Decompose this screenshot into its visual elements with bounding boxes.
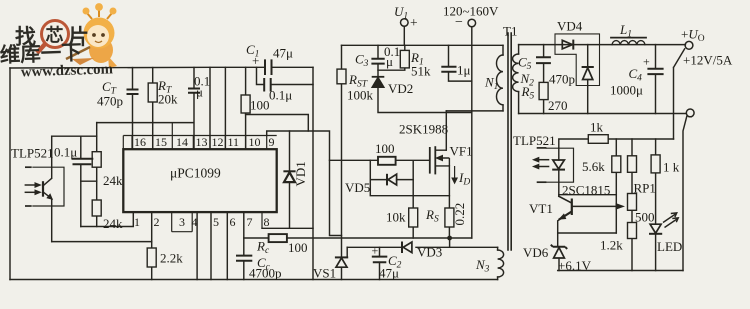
wire U1 terminal stub — [403, 26, 405, 45]
svg-text:VD4: VD4 — [557, 19, 583, 34]
svg-text:6: 6 — [230, 215, 236, 229]
wire pin4-5 divider ground — [196, 212, 198, 279]
capacitor C2 47u plates — [372, 257, 388, 263]
wire 24k2 bottom — [96, 216, 98, 227]
box VD4 outline — [555, 34, 600, 86]
wire C4 column — [655, 45, 657, 114]
svg-text:14: 14 — [176, 135, 188, 149]
wire VS1 gate stub — [346, 247, 348, 257]
ic U1 uPC1099 body — [123, 149, 276, 212]
svg-text:47μ: 47μ — [273, 46, 293, 61]
svg-text:4: 4 — [192, 215, 198, 229]
wire divider 12-11 / C1 left feed — [224, 67, 226, 149]
resistor 2.2k — [147, 248, 156, 267]
svg-text:μPC1099: μPC1099 — [170, 166, 221, 181]
wire right vertical bus x313 — [312, 67, 314, 279]
wire 0.1u-b left plate stub — [257, 67, 265, 84]
svg-text:VS1: VS1 — [313, 266, 336, 281]
wire 24k mid tap — [81, 180, 97, 182]
wire VD4 freewheel stubs — [587, 45, 589, 114]
capacitor 0.1u-c plates — [72, 159, 94, 165]
wire R1 stubs — [378, 45, 405, 70]
resistor 100 gate horizontal — [378, 157, 396, 165]
svg-text:μ: μ — [196, 85, 203, 100]
arrow LED emission 1 — [663, 213, 677, 223]
wire N2 ends — [518, 45, 520, 114]
winding N1 coil — [497, 55, 504, 105]
wire pin5-6 divider ground — [210, 212, 212, 279]
svg-text:VD2: VD2 — [388, 81, 413, 96]
watermark mascot antennae — [87, 9, 112, 19]
svg-text:www.dzsc.com: www.dzsc.com — [21, 61, 114, 80]
capacitor CT 470p plates — [127, 90, 139, 95]
wire C3 stub — [377, 45, 379, 58]
wire TLP collector link — [52, 135, 97, 137]
svg-text:7: 7 — [247, 215, 253, 229]
wire 1.2k row — [558, 232, 617, 234]
svg-text:100k: 100k — [347, 88, 374, 103]
capacitor Cc 4700p plates — [236, 256, 252, 261]
diode VD4 freewheel — [582, 66, 594, 68]
terminal minus — [468, 19, 476, 27]
wire gate row left — [330, 159, 379, 161]
winding N3 coil — [498, 250, 504, 277]
wire VD2 anode down and row to minus — [378, 87, 472, 113]
resistor RP1 pot body — [628, 194, 637, 211]
wire RST VS1 main column — [341, 45, 343, 279]
svg-text:2: 2 — [154, 215, 160, 229]
wire pin1 jog — [81, 212, 134, 226]
svg-text:8: 8 — [264, 215, 270, 229]
arrow opto light right 1 — [538, 159, 549, 161]
wire CT column — [132, 68, 134, 149]
dash opto left top — [25, 166, 32, 168]
wire VD1 column — [289, 131, 291, 228]
svg-text:5.6k: 5.6k — [582, 159, 605, 174]
wire RS column and source — [448, 166, 450, 247]
arrow ID drain current — [454, 166, 456, 180]
wire VD5 left link — [370, 160, 449, 195]
led LED indicator — [649, 233, 662, 235]
wire N1 bottom row — [446, 110, 503, 112]
svg-text:2SC1815: 2SC1815 — [562, 183, 610, 198]
wire RT column — [152, 68, 154, 149]
resistor R5 270 — [539, 82, 548, 99]
wire 0.1u-c column — [80, 136, 82, 226]
terminal U1 plus — [401, 19, 409, 27]
watermark mascot arm spear — [66, 47, 90, 59]
diode VD2 — [372, 76, 385, 78]
wire pin9 drive staircase — [267, 131, 342, 236]
wire C3 bottom to VD2 — [377, 64, 379, 77]
arrow opto light left 1 — [25, 184, 36, 186]
winding N2 coil — [513, 54, 519, 92]
wire 100ohm column to pin10 — [245, 67, 247, 149]
wire pin6-7 divider ground — [226, 212, 228, 279]
svg-text:15: 15 — [155, 135, 167, 149]
wire 0.1u-b right plate to bus — [271, 84, 313, 86]
wire outer left border — [9, 68, 11, 280]
diode VD4 series — [572, 40, 574, 50]
resistor 1k right — [651, 155, 660, 173]
resistor 24k upper — [92, 152, 101, 168]
wire VD6 anode to rail — [558, 259, 560, 271]
svg-text:470p: 470p — [97, 94, 123, 109]
wire TLP emitter down to 2.2k row — [51, 199, 53, 242]
wire pin7 column to Cc — [243, 212, 245, 279]
wire switch lower — [683, 116, 687, 270]
wire pin2 row — [52, 241, 152, 243]
wire horizontal bus above pins — [97, 122, 194, 124]
capacitor 0.1u pin13 plates — [188, 89, 200, 93]
arrow opto light left 2 — [25, 191, 36, 193]
svg-text:1μ: 1μ — [457, 63, 471, 78]
terminal 0V — [686, 109, 694, 117]
svg-text:1k: 1k — [590, 120, 604, 135]
node RS bottom junction — [447, 236, 452, 241]
dash opto right bottom — [537, 181, 547, 183]
svg-text:24k: 24k — [103, 216, 123, 231]
capacitor C5 470p plates — [536, 57, 551, 63]
svg-text:TLP521: TLP521 — [11, 146, 54, 161]
capacitor C3 0.1u plates — [371, 59, 384, 64]
svg-text:1 k: 1 k — [663, 160, 680, 175]
svg-text:0.1μ: 0.1μ — [54, 145, 77, 160]
wire 10k column — [412, 161, 414, 238]
wire switch upper — [674, 49, 685, 139]
svg-text:1: 1 — [134, 215, 140, 229]
wire 1k left to opto LED — [559, 139, 589, 148]
wire pin2 column / 2.2k — [151, 212, 153, 279]
wire VT1 base row to RP1 — [573, 205, 616, 207]
wire vcc link 100ohm to pin9 row — [246, 115, 309, 132]
svg-text:0.22: 0.22 — [452, 203, 467, 226]
dash opto left bottom — [25, 205, 32, 207]
box TLP521 left open-left — [32, 167, 64, 206]
ic pin row top line — [123, 136, 276, 150]
wire opto LED cathode — [558, 170, 560, 196]
wire secondary lower rail — [519, 113, 687, 115]
box TLP521 right open-left — [546, 148, 573, 182]
svg-text:1000μ: 1000μ — [610, 83, 643, 98]
wire bottom ground rail — [10, 279, 498, 281]
svg-text:51k: 51k — [411, 64, 431, 79]
svg-text:100: 100 — [288, 240, 308, 255]
svg-text:100: 100 — [375, 141, 395, 156]
svg-text:11: 11 — [228, 135, 240, 149]
svg-text:VD6: VD6 — [523, 245, 549, 260]
resistor RST 100k — [337, 69, 346, 84]
led opto TLP right — [552, 169, 565, 171]
wire gate row right — [396, 159, 430, 161]
svg-text:VD3: VD3 — [417, 245, 442, 260]
svg-text:+: + — [252, 53, 259, 68]
svg-text:0.1μ: 0.1μ — [269, 88, 292, 103]
capacitor 0.1u-b plates — [264, 78, 271, 92]
svg-text:TLP521: TLP521 — [513, 133, 556, 148]
wire VT1 emitter path to VD6 — [558, 213, 571, 246]
svg-text:VD5: VD5 — [345, 180, 370, 195]
svg-text:3: 3 — [179, 215, 185, 229]
svg-text:2.2k: 2.2k — [160, 251, 183, 266]
wire minus input column — [471, 27, 473, 238]
wire drain to N1 — [445, 111, 447, 150]
wire C2 column — [379, 247, 381, 279]
svg-text:470p: 470p — [549, 72, 575, 87]
svg-text:RP1: RP1 — [634, 181, 656, 196]
wire sense rail Rc row — [244, 237, 472, 239]
watermark magnifier lens — [42, 21, 69, 48]
svg-text:100: 100 — [250, 98, 270, 113]
wire bottom feedback rail — [558, 270, 683, 272]
svg-text:120~160V: 120~160V — [443, 4, 499, 19]
svg-text:10k: 10k — [386, 210, 406, 225]
svg-text:T1: T1 — [503, 24, 517, 39]
wire VD5 right link — [397, 179, 414, 181]
resistor 100 vcc — [241, 95, 250, 113]
wire top border / VCC top line — [10, 66, 313, 69]
wire bus left corner down to 24k — [96, 123, 98, 152]
resistor RS 0.22 — [445, 208, 454, 227]
svg-text:VD1: VD1 — [293, 161, 308, 186]
svg-text:9: 9 — [269, 135, 275, 149]
wire 1k LED column — [655, 139, 657, 271]
wire N3 top row with VD3 — [347, 246, 497, 248]
resistor 10k — [409, 208, 418, 227]
svg-text:47μ: 47μ — [379, 266, 399, 281]
watermark mascot body — [89, 37, 113, 63]
arrow opto light right 2 — [538, 166, 549, 168]
terminal +Uo — [685, 41, 693, 49]
wire RP1 column — [631, 139, 633, 271]
wire 0.1u column to pin13 — [193, 68, 195, 150]
inductor L1 coil — [612, 41, 645, 45]
svg-text:−: − — [455, 15, 463, 30]
wire secondary top rail — [519, 44, 686, 46]
resistor Rc 100 horizontal — [269, 234, 287, 242]
svg-text:LED: LED — [657, 239, 682, 254]
transistor opto phototransistor — [42, 181, 44, 197]
svg-text:+: + — [643, 55, 650, 69]
wire 1u cap column — [449, 45, 472, 81]
svg-text:+: + — [410, 15, 418, 30]
svg-text:+6.1V: +6.1V — [558, 258, 592, 273]
wire C5 R5 column — [543, 45, 545, 114]
diode VD3 — [401, 242, 403, 254]
resistor R1 51k — [400, 50, 409, 68]
svg-text:μ: μ — [386, 54, 393, 69]
resistor RT 20k — [148, 83, 157, 102]
diode VD1 — [283, 170, 295, 172]
arrow LED emission 2 — [665, 218, 679, 228]
ic pin dividers top — [132, 123, 267, 150]
svg-text:10: 10 — [249, 135, 261, 149]
capacitor C4 1000u plates — [647, 69, 663, 74]
zener VD6 — [551, 245, 567, 249]
svg-text:13: 13 — [196, 135, 208, 149]
wire N1 coil ends — [502, 45, 504, 111]
svg-text:1.2k: 1.2k — [600, 238, 623, 253]
resistor 1k horizontal feedback — [588, 135, 608, 144]
svg-text:270: 270 — [548, 98, 568, 113]
arrow RP1 wiper — [616, 204, 624, 209]
transistor VT1 2SC1815 — [571, 199, 573, 216]
svg-text:5: 5 — [213, 215, 219, 229]
wire opto LED anode inside — [558, 148, 560, 160]
watermark mascot head — [84, 18, 115, 49]
svg-text:2SK1988: 2SK1988 — [399, 122, 448, 137]
svg-text:+: + — [372, 244, 379, 258]
wire 5.6k column — [615, 139, 617, 233]
resistor 24k lower — [92, 200, 101, 216]
inductor L1 core bar — [611, 37, 646, 39]
capacitor C1 47u plates — [265, 59, 272, 75]
ic pin stubs bottom — [172, 212, 262, 232]
dash opto right top — [537, 147, 547, 149]
capacitor 1u plates — [441, 67, 456, 72]
svg-text:24k: 24k — [103, 173, 123, 188]
wire TLP collector down — [51, 136, 53, 178]
wire plus rail top — [342, 44, 504, 46]
svg-text:VF1: VF1 — [450, 144, 473, 159]
svg-text:12: 12 — [212, 135, 224, 149]
thyristor VS1 — [335, 256, 348, 258]
transformer T1 core — [508, 33, 511, 250]
svg-text:4700p: 4700p — [249, 266, 282, 281]
wire N3 ends — [497, 247, 499, 279]
diode VD5 — [386, 174, 388, 186]
resistor 5.6k — [612, 156, 621, 173]
svg-text:VT1: VT1 — [529, 201, 553, 216]
wire divider 13-12 — [209, 67, 211, 149]
wire +12V feedback rail — [608, 138, 673, 140]
wire 24k chain middle — [96, 167, 98, 200]
svg-text:20k: 20k — [158, 92, 178, 107]
svg-text:500: 500 — [635, 210, 655, 225]
resistor RP1 upper — [628, 156, 637, 173]
transistor VF1 mosfet — [429, 147, 431, 174]
svg-text:16: 16 — [134, 135, 146, 149]
wire pin8 row — [262, 227, 313, 229]
resistor 500 — [628, 223, 637, 239]
svg-text:+12V/5A: +12V/5A — [683, 53, 733, 68]
wire VT1 collector diagonal — [559, 196, 572, 203]
wire collector node row — [559, 194, 617, 196]
